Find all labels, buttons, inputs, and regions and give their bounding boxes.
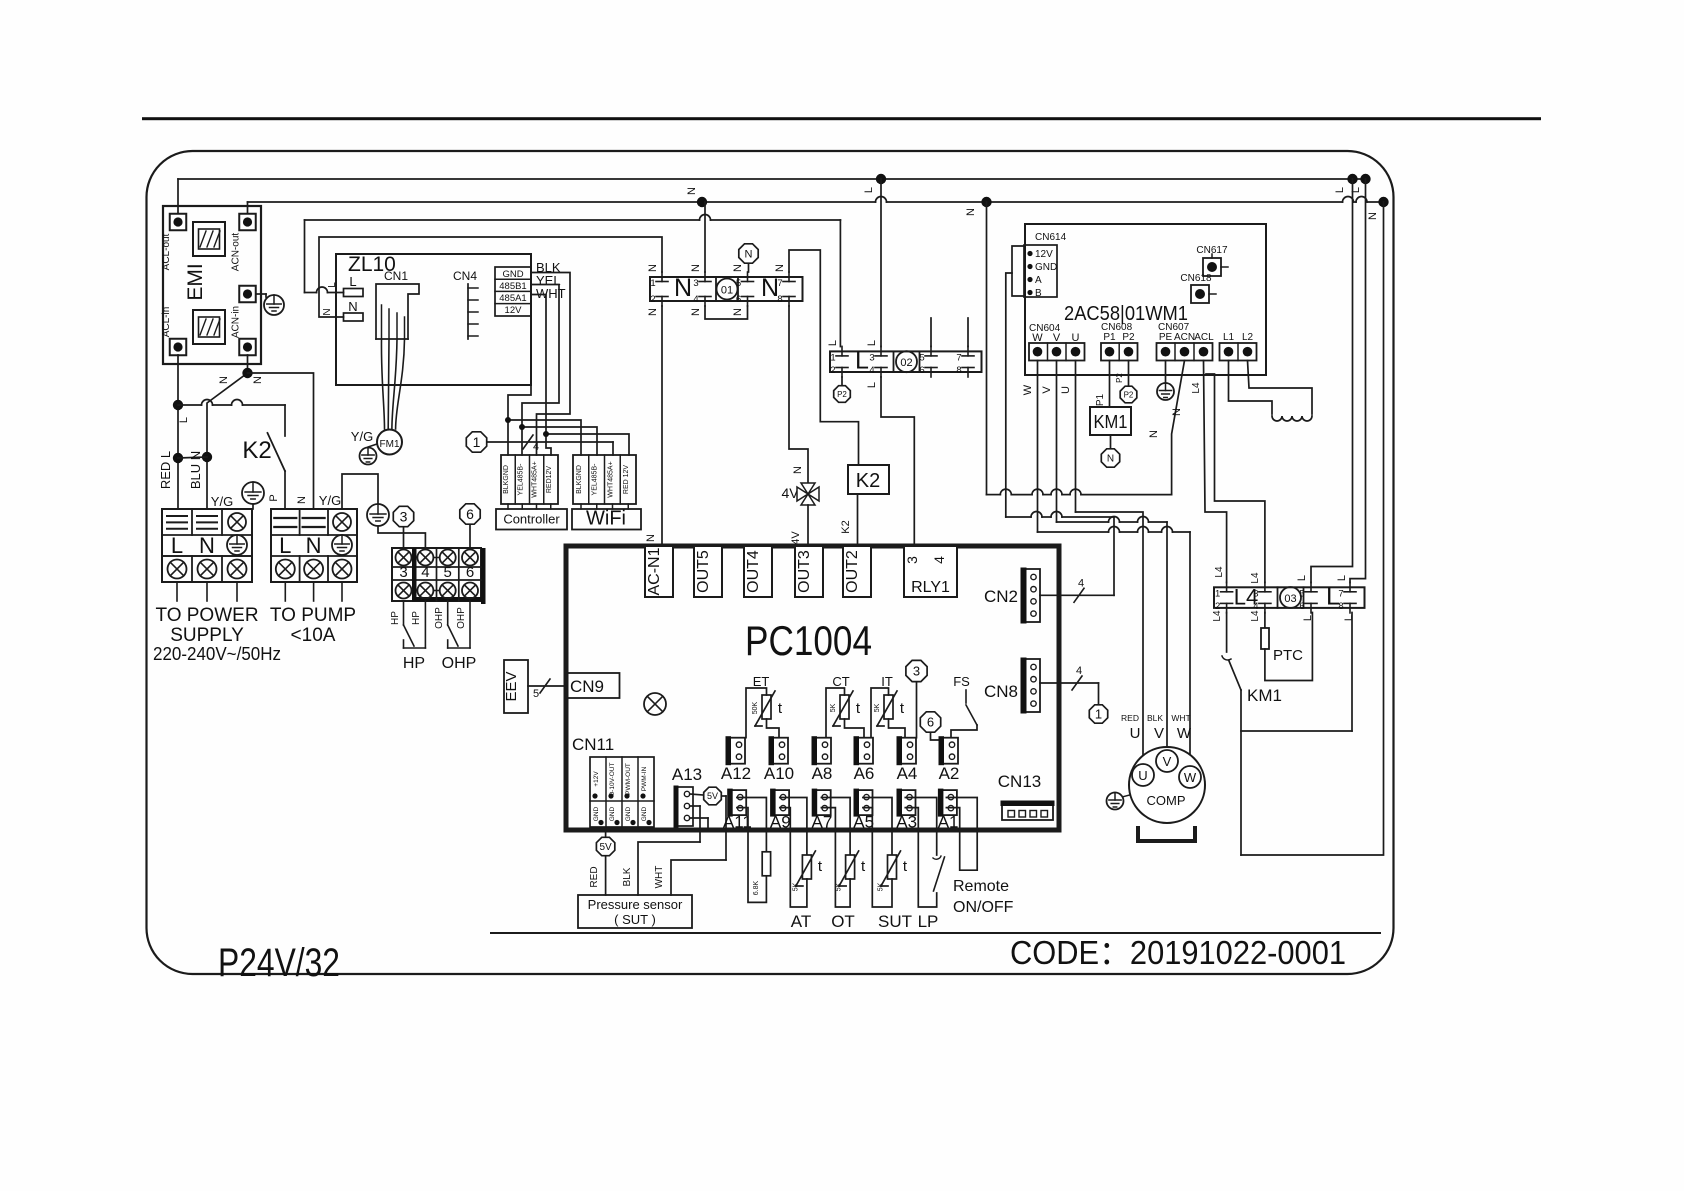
- svg-text:YEL485B-: YEL485B-: [592, 463, 599, 496]
- svg-text:U: U: [1072, 332, 1080, 344]
- terminal ACL-in: [170, 339, 187, 356]
- svg-text:N: N: [690, 308, 702, 316]
- svg-text:Y/G: Y/G: [319, 493, 341, 508]
- wire pin7 to K2 coil: [789, 250, 859, 465]
- wire P1 to KM1 coil: [1109, 361, 1111, 408]
- svg-text:4: 4: [1078, 577, 1084, 589]
- PC1004 board: [566, 546, 1059, 830]
- ZL10 output header GND/485B1/485A1/12V: [495, 267, 531, 316]
- svg-text:5V: 5V: [599, 842, 612, 853]
- compressor mount bracket: [1138, 828, 1195, 841]
- svg-text:5K: 5K: [830, 703, 837, 712]
- wire PE ground: [1165, 361, 1167, 384]
- svg-text:N: N: [322, 308, 333, 315]
- svg-text:CT: CT: [832, 674, 849, 689]
- connector A5: [855, 790, 873, 815]
- svg-text:PTC: PTC: [1273, 647, 1303, 664]
- svg-text:P2: P2: [1124, 390, 1134, 399]
- connector A10: [770, 738, 788, 764]
- connector A12: [727, 738, 745, 764]
- svg-text:RED: RED: [1121, 713, 1139, 723]
- svg-text:GND: GND: [641, 806, 648, 821]
- svg-text:PWM-OUT: PWM-OUT: [625, 763, 632, 795]
- svg-text:U: U: [1060, 386, 1072, 394]
- svg-text:FS: FS: [953, 674, 970, 689]
- svg-text:12V: 12V: [1035, 249, 1053, 260]
- svg-text:ACN-out: ACN-out: [231, 233, 242, 272]
- svg-text:HP: HP: [390, 611, 401, 625]
- svg-text:L: L: [327, 282, 338, 288]
- svg-text:N: N: [1367, 212, 1379, 220]
- svg-text:WHT: WHT: [654, 866, 665, 889]
- svg-text:1: 1: [1215, 588, 1220, 599]
- svg-text:N: N: [745, 248, 753, 260]
- svg-text:N: N: [199, 533, 215, 558]
- connector A8: [813, 738, 831, 764]
- wire to L4 pin3: [1206, 374, 1265, 583]
- connector OUT3: [795, 546, 823, 597]
- svg-text:A6: A6: [854, 764, 875, 783]
- svg-text:8: 8: [777, 294, 782, 305]
- svg-text:<10A: <10A: [291, 625, 336, 646]
- svg-text:4: 4: [1253, 601, 1258, 612]
- N distribution with hops: [986, 202, 988, 495]
- svg-text:( SUT ): ( SUT ): [614, 912, 656, 927]
- svg-text:A4: A4: [897, 764, 918, 783]
- svg-text:ACL-out: ACL-out: [161, 233, 172, 270]
- remote on/off: [946, 798, 977, 871]
- svg-text:W: W: [1032, 332, 1043, 344]
- node 1: [466, 432, 486, 452]
- svg-text:L: L: [1336, 575, 1348, 581]
- svg-text:PC1004: PC1004: [745, 617, 872, 664]
- svg-text:GND: GND: [625, 806, 632, 821]
- terminal block TO PUMP: [271, 509, 357, 582]
- ZL10 terminal N: [344, 313, 364, 321]
- svg-text:B: B: [1035, 288, 1042, 299]
- svg-text:N: N: [761, 274, 779, 302]
- svg-text:5V: 5V: [707, 791, 718, 801]
- svg-text:3: 3: [399, 564, 407, 581]
- svg-text:L: L: [827, 340, 839, 346]
- page top rule: [142, 117, 1541, 120]
- svg-text:8: 8: [1338, 601, 1343, 612]
- pressure sensor box: [578, 895, 692, 928]
- svg-text:Y/G: Y/G: [351, 429, 373, 444]
- svg-text:V: V: [1163, 754, 1172, 769]
- svg-text:IT: IT: [881, 674, 893, 689]
- svg-text:CN4: CN4: [453, 269, 477, 283]
- svg-text:5: 5: [1299, 588, 1304, 599]
- svg-text:N: N: [732, 308, 744, 316]
- WiFi box: [572, 509, 641, 530]
- svg-text:A12: A12: [721, 764, 751, 783]
- svg-text:N: N: [792, 466, 804, 474]
- svg-text:12V: 12V: [505, 305, 523, 316]
- wire L rail right drop B: [1350, 179, 1366, 583]
- terminal ACL-out: [170, 214, 187, 231]
- svg-text:OHP: OHP: [456, 607, 467, 629]
- svg-text:L4: L4: [1250, 610, 1261, 622]
- fan FM1: [381, 339, 384, 429]
- wire N rail right drop: [1241, 202, 1384, 855]
- wire L rail down to pin3: [880, 179, 882, 347]
- svg-text:A: A: [1035, 275, 1042, 286]
- svg-text:RED L: RED L: [158, 451, 173, 489]
- svg-text:3: 3: [1253, 588, 1258, 599]
- svg-text:P24V/32: P24V/32: [218, 941, 340, 985]
- svg-text:GND: GND: [609, 806, 616, 821]
- svg-text:5K: 5K: [878, 882, 885, 891]
- svg-text:4: 4: [533, 441, 539, 453]
- svg-text:N: N: [1171, 408, 1183, 416]
- WiFi header: [573, 455, 636, 504]
- svg-text:485B1: 485B1: [499, 281, 526, 292]
- svg-text:OHP: OHP: [434, 607, 445, 629]
- svg-text:A1: A1: [938, 813, 959, 832]
- svg-text:TO PUMP: TO PUMP: [270, 605, 356, 626]
- svg-text:FM1: FM1: [380, 439, 400, 450]
- svg-text:K2: K2: [242, 437, 271, 464]
- svg-text:BLK: BLK: [622, 867, 633, 886]
- svg-text:LP: LP: [918, 912, 939, 931]
- svg-text:6: 6: [919, 365, 924, 376]
- svg-text:WHT485A+: WHT485A+: [607, 461, 614, 497]
- wire P2: [1128, 361, 1130, 386]
- connector A11: [729, 790, 747, 815]
- EMI filter box: [163, 206, 261, 364]
- svg-text:HP: HP: [411, 611, 422, 625]
- switch LP: [905, 798, 936, 856]
- wire ACN-out to N rail: [247, 202, 249, 214]
- svg-text:3: 3: [400, 509, 408, 525]
- svg-text:W: W: [1184, 770, 1197, 785]
- svg-text:4V: 4V: [790, 531, 802, 545]
- relay block N-01-N: [650, 277, 803, 301]
- N rail: [248, 201, 876, 203]
- svg-text:ACL-in: ACL-in: [161, 307, 172, 338]
- svg-text:+12V: +12V: [593, 771, 600, 787]
- node 3 small: [906, 660, 927, 681]
- svg-text:485A1: 485A1: [499, 293, 526, 304]
- svg-text:5K: 5K: [836, 882, 843, 891]
- svg-text:L4: L4: [1250, 572, 1261, 584]
- svg-text:P: P: [268, 494, 280, 501]
- svg-text:CN13: CN13: [998, 772, 1041, 791]
- svg-text:02: 02: [900, 357, 912, 369]
- node 6: [460, 504, 480, 524]
- svg-text:L: L: [1296, 575, 1308, 581]
- svg-text:ET: ET: [753, 674, 770, 689]
- compressor ground: [1122, 795, 1130, 797]
- svg-text:ACL: ACL: [1194, 332, 1214, 343]
- connector OUT4: [744, 546, 772, 597]
- svg-text:TO POWER: TO POWER: [155, 605, 258, 626]
- terminal ACN-in upper: [239, 286, 256, 303]
- title separator: [491, 932, 1380, 934]
- svg-text:5K: 5K: [792, 882, 799, 891]
- resistor 6.8K loop A11: [737, 798, 767, 852]
- contactor coil KM1: [1090, 407, 1131, 435]
- svg-text:N: N: [965, 208, 977, 216]
- svg-text:2: 2: [830, 365, 835, 376]
- svg-text:CN1: CN1: [384, 269, 408, 283]
- EMI inductor bottom: [193, 310, 225, 344]
- svg-text:1: 1: [650, 278, 655, 289]
- svg-text:CN9: CN9: [570, 677, 604, 696]
- svg-text:1: 1: [1095, 707, 1102, 722]
- connector OUT2: [843, 546, 871, 597]
- svg-text:RLY1: RLY1: [911, 579, 950, 596]
- inverter box 2AC58|01WM1: [1025, 224, 1266, 375]
- 5V node + pressure sensor wires: [605, 830, 607, 837]
- wire line A: ZL10 L to L-block pin1: [304, 220, 306, 293]
- terminal block TO POWER SUPPLY: [162, 509, 252, 582]
- svg-text:EMI: EMI: [184, 263, 207, 300]
- wire ACL L4: [1204, 361, 1227, 583]
- L rail: [178, 178, 1366, 180]
- svg-text:N: N: [296, 496, 308, 504]
- svg-text:3: 3: [693, 278, 698, 289]
- wire ACN-in to N column: [207, 355, 248, 509]
- svg-text:OUT5: OUT5: [695, 550, 712, 593]
- svg-text:V: V: [1041, 386, 1053, 394]
- svg-text:A13: A13: [672, 765, 702, 784]
- relay coil K2: [848, 465, 889, 494]
- EEV: [504, 660, 528, 713]
- wire pin4 to RLY1: [881, 377, 914, 546]
- svg-text:4: 4: [869, 365, 874, 376]
- wire L branch to K2: [178, 404, 202, 406]
- svg-text:L4: L4: [1191, 382, 1202, 394]
- svg-text:BLK: BLK: [1147, 713, 1163, 723]
- svg-text:RED 12V: RED 12V: [623, 465, 630, 495]
- stubs pins 5,7: [930, 318, 932, 347]
- svg-text:P1: P1: [1103, 332, 1116, 343]
- wire AC-N1 riser: [661, 306, 663, 546]
- ground by pump: [367, 504, 389, 526]
- svg-text:50K: 50K: [752, 701, 759, 714]
- svg-text:L: L: [1334, 187, 1346, 193]
- svg-text:AT: AT: [791, 912, 811, 931]
- svg-text:220-240V~/50Hz: 220-240V~/50Hz: [153, 644, 281, 664]
- svg-text:N: N: [674, 274, 692, 302]
- svg-text:N: N: [218, 376, 230, 384]
- svg-text:U: U: [1130, 725, 1141, 742]
- relay block L4-03-L: [1214, 587, 1365, 608]
- connector A4: [898, 738, 916, 764]
- ground at ACN-in: [256, 293, 266, 295]
- connector AC-N1: [645, 546, 673, 597]
- relay RLY1 terminals: [904, 546, 957, 597]
- connector A9: [772, 790, 790, 815]
- svg-text:KM1: KM1: [1094, 412, 1128, 432]
- svg-text:N: N: [252, 376, 264, 384]
- ZL10 terminal L: [344, 289, 364, 297]
- svg-text:L: L: [279, 533, 291, 558]
- lamp symbol: [644, 693, 666, 715]
- wire line B: ZL10 N to N-block pin1: [319, 237, 662, 317]
- svg-text:AC-N1: AC-N1: [646, 547, 663, 595]
- svg-text:P2: P2: [1115, 373, 1124, 383]
- svg-text:L: L: [866, 382, 878, 388]
- wire node1 to WiFi: [488, 441, 614, 443]
- EMI inductor top: [193, 222, 225, 256]
- svg-text:SUT: SUT: [878, 912, 912, 931]
- node 6 small: [920, 712, 940, 732]
- connector OUT5: [694, 546, 722, 597]
- svg-text:V: V: [1154, 725, 1164, 742]
- svg-text:CN618: CN618: [1180, 273, 1212, 284]
- CN1 inner wires: [381, 305, 383, 339]
- svg-text:1: 1: [830, 352, 835, 363]
- thermistor SUT: [863, 798, 892, 856]
- relay block L-02: [830, 351, 982, 372]
- svg-text:N: N: [647, 308, 659, 316]
- svg-text:4: 4: [693, 294, 698, 305]
- thermistor OT: [821, 798, 850, 856]
- svg-text:K2: K2: [856, 470, 880, 492]
- svg-text:ACN-in: ACN-in: [231, 306, 242, 338]
- svg-text:PWM-IN: PWM-IN: [641, 766, 648, 791]
- svg-text:OUT3: OUT3: [796, 550, 813, 593]
- wire nest ZL10 to comms: [531, 273, 570, 456]
- svg-text:ON/OFF: ON/OFF: [953, 899, 1014, 916]
- switch KM1 contact: [1226, 613, 1228, 653]
- svg-text:5: 5: [533, 688, 539, 700]
- svg-text:1: 1: [473, 434, 481, 450]
- wires U V W to compressor: [1076, 512, 1144, 764]
- svg-text:6: 6: [736, 294, 741, 305]
- svg-text:7: 7: [1338, 588, 1343, 599]
- svg-text:3: 3: [869, 352, 874, 363]
- svg-text:L1: L1: [1223, 332, 1235, 343]
- svg-text:P1: P1: [1095, 393, 1106, 406]
- svg-text:5: 5: [919, 352, 924, 363]
- svg-text:RED12V: RED12V: [546, 466, 553, 494]
- svg-text:N: N: [1107, 454, 1114, 465]
- svg-text:N: N: [690, 264, 702, 272]
- svg-text:WHT: WHT: [536, 286, 566, 301]
- svg-text:ACN: ACN: [1174, 332, 1195, 343]
- svg-text:CN614: CN614: [1035, 232, 1067, 243]
- Controller box: [496, 509, 567, 530]
- svg-text:N: N: [348, 299, 357, 314]
- svg-text:BLKGND: BLKGND: [503, 465, 510, 494]
- wire CN2 to CN614: [1040, 594, 1114, 596]
- wire L rail right drop A: [1311, 179, 1353, 583]
- svg-text:7: 7: [956, 352, 961, 363]
- svg-text:BLU N: BLU N: [188, 451, 203, 489]
- PTC loop: [1264, 613, 1266, 629]
- ZL10 box: [336, 254, 531, 385]
- terminal block 3-4-5-6: [392, 548, 481, 601]
- connector CN9: [567, 673, 620, 698]
- svg-text:A2: A2: [939, 764, 960, 783]
- wire ACN diagonal N: [1172, 361, 1185, 495]
- svg-text:WHT: WHT: [1171, 713, 1190, 723]
- svg-text:2: 2: [650, 294, 655, 305]
- svg-text:L: L: [171, 533, 183, 558]
- node N above relay: [739, 244, 758, 263]
- svg-text:V: V: [1053, 332, 1061, 344]
- svg-text:3: 3: [913, 664, 920, 679]
- svg-text:L4: L4: [1212, 610, 1223, 622]
- svg-text:Pressure sensor: Pressure sensor: [588, 897, 683, 912]
- svg-text:N: N: [645, 534, 657, 542]
- svg-text:P2: P2: [1122, 332, 1135, 343]
- wire pin8 to 4V valve: [789, 306, 808, 487]
- svg-text:6: 6: [466, 564, 474, 581]
- svg-text:5: 5: [736, 278, 741, 289]
- svg-text:A7: A7: [812, 813, 833, 832]
- connector A2: [940, 738, 958, 764]
- svg-text:RED: RED: [589, 866, 600, 887]
- connector A3: [898, 790, 916, 815]
- svg-text:OUT2: OUT2: [844, 550, 861, 593]
- svg-text:Y/G: Y/G: [211, 494, 233, 509]
- svg-text:L: L: [178, 417, 190, 423]
- svg-text:3: 3: [904, 556, 920, 564]
- svg-text:8: 8: [956, 365, 961, 376]
- svg-text:A9: A9: [770, 813, 791, 832]
- ground above power block: [242, 482, 264, 504]
- svg-text:L: L: [1343, 615, 1355, 621]
- svg-text:WHT485A+: WHT485A+: [532, 461, 539, 497]
- svg-text:2: 2: [1215, 601, 1220, 612]
- compressor COMP: [1129, 747, 1205, 823]
- terminal ACN-out: [239, 214, 256, 231]
- wire N branch to pump block: [248, 373, 314, 509]
- svg-text:EEV: EEV: [503, 671, 520, 701]
- wire pin4-pin6 loop: [705, 306, 748, 319]
- connector A6: [855, 738, 873, 764]
- connector A7: [813, 790, 831, 815]
- svg-text:W: W: [1022, 384, 1034, 395]
- diagram frame: [147, 151, 1394, 974]
- wire pin3 up to N rail: [704, 202, 706, 272]
- wire ACL-out to L rail: [177, 179, 179, 214]
- terminal ACN-in: [239, 339, 256, 356]
- svg-text:HP: HP: [403, 655, 425, 672]
- svg-text:L4: L4: [1214, 566, 1225, 578]
- node P2 under pin2: [841, 377, 843, 385]
- svg-text:GND: GND: [502, 269, 523, 280]
- svg-text:OT: OT: [831, 912, 855, 931]
- svg-text:SUPPLY: SUPPLY: [170, 625, 244, 646]
- svg-text:4: 4: [421, 564, 429, 581]
- svg-text:Remote: Remote: [953, 878, 1009, 895]
- node 3: [393, 506, 413, 526]
- connector A1: [939, 790, 957, 815]
- svg-text:6: 6: [1299, 601, 1304, 612]
- svg-text:A8: A8: [812, 764, 833, 783]
- svg-text:KM1: KM1: [1247, 686, 1282, 705]
- svg-text:P2: P2: [837, 390, 847, 399]
- svg-text:W: W: [1177, 725, 1192, 742]
- switch K2: [284, 405, 286, 436]
- wire pump Y/G to ground: [342, 474, 378, 509]
- svg-text:7: 7: [777, 278, 782, 289]
- svg-text:N: N: [774, 264, 786, 272]
- wire L1 L2 to reactor coil: [1229, 361, 1273, 415]
- svg-text:CN11: CN11: [572, 735, 614, 754]
- svg-text:L: L: [855, 347, 869, 375]
- svg-text:WiFi: WiFi: [586, 508, 626, 530]
- svg-text:Controller: Controller: [503, 512, 560, 527]
- svg-text:OHP: OHP: [442, 655, 477, 672]
- svg-text:L2: L2: [1242, 332, 1254, 343]
